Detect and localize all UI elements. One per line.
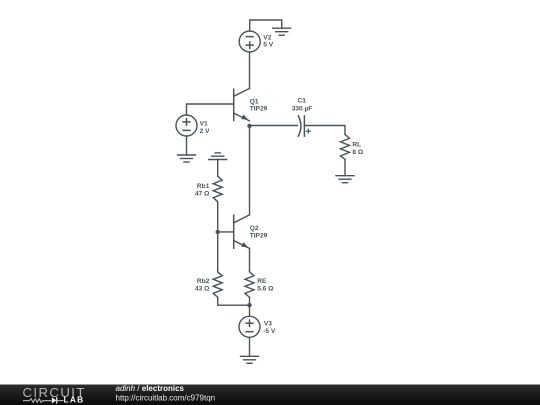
voltage source V3 xyxy=(239,316,260,337)
label V1 value xyxy=(200,120,210,135)
svg-text:Q2: Q2 xyxy=(250,225,259,232)
wire Q1 base to V1 xyxy=(187,104,234,115)
resistor RL xyxy=(341,134,350,159)
svg-text:5 V: 5 V xyxy=(263,42,273,49)
wire node to V3 xyxy=(249,305,251,316)
label Q2 value xyxy=(250,225,268,239)
svg-text:LAB: LAB xyxy=(64,395,85,405)
label RE value xyxy=(257,278,274,292)
label Q1 value xyxy=(250,98,268,112)
logo LAB text xyxy=(64,395,85,405)
node output of Q1 emitter (junction) xyxy=(247,124,251,128)
logo resistor zigzag xyxy=(23,399,52,403)
wire Q2 emitter to RE xyxy=(249,248,251,271)
logo diode xyxy=(52,397,64,403)
flipped ground (above Rb1) xyxy=(209,153,227,160)
label V2 value xyxy=(263,34,273,48)
ground (below V1) xyxy=(178,155,196,162)
wire base node to Q2 base xyxy=(218,231,234,233)
wire C1 to RL xyxy=(304,126,345,135)
svg-text:43 Ω: 43 Ω xyxy=(195,285,210,292)
wire V1 to ground xyxy=(186,136,188,155)
wire RL to ground xyxy=(344,159,346,175)
wire RE bottom to V3 node xyxy=(249,297,251,305)
svg-text:47 Ω: 47 Ω xyxy=(195,190,210,197)
svg-text:V2: V2 xyxy=(263,34,271,41)
wire flipped ground to Rb1 xyxy=(217,160,219,177)
wire Rb1 to base node xyxy=(217,202,219,232)
resistor Rb1 xyxy=(213,176,222,202)
svg-text:V3: V3 xyxy=(264,321,272,328)
svg-text:2 V: 2 V xyxy=(200,128,210,135)
svg-text:Rb2: Rb2 xyxy=(197,278,210,285)
resistor RE xyxy=(245,272,254,298)
ground (below V3) xyxy=(241,356,259,363)
svg-text:5.6 Ω: 5.6 Ω xyxy=(257,285,274,292)
svg-text:C1: C1 xyxy=(298,98,307,105)
node bottom (junction) xyxy=(247,303,251,307)
voltage source V1 xyxy=(176,115,197,136)
svg-text:RE: RE xyxy=(257,278,267,285)
svg-text:330 µF: 330 µF xyxy=(292,105,313,112)
svg-text:adinh / electronics: adinh / electronics xyxy=(116,384,185,393)
wire node to C1 xyxy=(250,125,298,127)
svg-text:8 Ω: 8 Ω xyxy=(352,149,363,156)
wire V3 to ground xyxy=(249,337,251,356)
transistor Q1 xyxy=(234,88,250,120)
logo CIRCUIT text xyxy=(23,385,86,400)
label RL value xyxy=(352,141,363,156)
footer author line xyxy=(116,384,216,403)
svg-text:RL: RL xyxy=(352,141,361,148)
svg-text:http://circuitlab.com/c979tqn: http://circuitlab.com/c979tqn xyxy=(116,393,216,402)
capacitor C1 xyxy=(298,116,310,136)
wire base node down to Rb2 xyxy=(217,232,219,272)
svg-text:Rb1: Rb1 xyxy=(197,183,210,190)
footer bar xyxy=(0,385,540,405)
resistor Rb2 xyxy=(213,272,222,298)
svg-text:V1: V1 xyxy=(200,120,208,127)
voltage source V2 xyxy=(239,31,260,52)
wire Rb2 bottom to V3 node xyxy=(218,297,250,305)
svg-text:TIP29: TIP29 xyxy=(250,105,268,112)
node Q2 base (junction) xyxy=(216,230,220,234)
wire V2 to Q1 collector xyxy=(249,52,251,88)
label C1 value xyxy=(292,98,313,113)
transistor Q2 xyxy=(234,215,250,249)
ground (below RL) xyxy=(336,176,354,183)
svg-text:-5 V: -5 V xyxy=(263,328,276,335)
label Rb2 value xyxy=(195,278,210,292)
ground (top right, net GND) xyxy=(273,28,291,35)
label Rb1 value xyxy=(195,183,210,198)
wire node down to Q2 collector xyxy=(249,126,251,215)
svg-text:TIP29: TIP29 xyxy=(250,233,268,240)
wire V2 top to ground xyxy=(250,20,282,31)
label V3 value xyxy=(263,321,276,335)
